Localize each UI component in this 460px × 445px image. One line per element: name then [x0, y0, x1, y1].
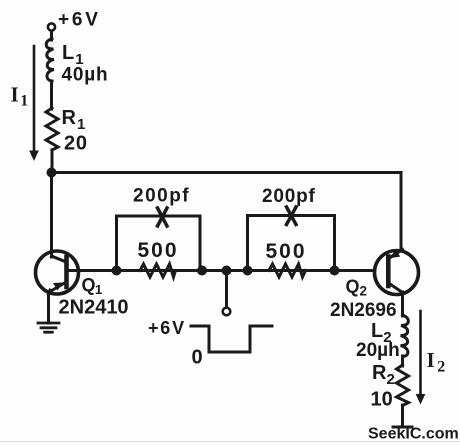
- node B junction dot: [112, 266, 122, 276]
- node C junction dot: [197, 266, 207, 276]
- svg-text:+6V: +6V: [148, 318, 186, 338]
- pulse input terminal: [223, 308, 231, 316]
- svg-text:0: 0: [192, 347, 203, 369]
- wire Q1 emitter to ground: [47, 292, 50, 323]
- svg-text:200pf: 200pf: [133, 186, 190, 207]
- svg-text:Q2: Q2: [346, 277, 368, 299]
- transistor Q2 2N2696: [375, 250, 419, 295]
- transistor Q1 2N2410: [36, 251, 79, 294]
- svg-text:500: 500: [138, 239, 179, 262]
- node E junction dot: [243, 266, 253, 276]
- capacitor C1 200pf: [158, 208, 168, 226]
- output end tick: [393, 426, 412, 429]
- resistor 500 (right): [269, 264, 306, 277]
- inductor L1 40uh: [46, 39, 54, 82]
- svg-text:R2: R2: [372, 362, 395, 388]
- svg-text:2N2696: 2N2696: [330, 300, 397, 321]
- svg-text:20µh: 20µh: [356, 340, 400, 361]
- resistor R2 10: [397, 365, 409, 406]
- wire L2 to R2: [401, 356, 404, 366]
- wire terminal to L1: [50, 31, 53, 40]
- node D junction dot (pulse stem): [222, 266, 232, 276]
- current arrow I2: [419, 311, 422, 396]
- svg-text:200pf: 200pf: [262, 186, 316, 207]
- ground: [38, 323, 59, 332]
- svg-text:40µh: 40µh: [62, 65, 109, 86]
- svg-text:500: 500: [266, 240, 307, 263]
- node A junction dot: [47, 168, 57, 178]
- svg-text:I1: I1: [11, 83, 29, 110]
- supply terminal +6V: [48, 23, 55, 30]
- svg-text:10: 10: [371, 389, 393, 411]
- svg-text:SeekIC.com: SeekIC.com: [368, 426, 459, 443]
- wire capacitor loop 1: [117, 216, 201, 271]
- wire R2 to output: [401, 405, 404, 427]
- wire stem to pulse terminal: [225, 271, 228, 308]
- resistor 500 (left): [140, 264, 176, 277]
- bottom border: [0, 441, 460, 443]
- svg-text:R1: R1: [62, 107, 86, 133]
- wire top rail: [52, 173, 402, 253]
- inductor L2 20uh: [401, 315, 409, 357]
- svg-text:20: 20: [64, 133, 88, 155]
- wire node A to Q1 collector: [50, 173, 53, 255]
- svg-text:Q1: Q1: [82, 275, 103, 297]
- svg-text:+6V: +6V: [58, 10, 101, 31]
- wire capacitor loop 2: [248, 216, 335, 271]
- pulse waveform: [191, 326, 272, 352]
- wire base rail Q1 to Q2: [67, 269, 387, 272]
- capacitor C2 200pf: [287, 207, 297, 225]
- current arrow I1: [33, 46, 36, 153]
- resistor R1 20: [46, 108, 58, 150]
- wire L1 to R1: [50, 81, 53, 109]
- wire R1 to node A: [51, 150, 54, 172]
- node F junction dot: [330, 266, 340, 276]
- wire Q2 emitter to L2: [401, 292, 404, 316]
- svg-text:I2: I2: [427, 348, 446, 376]
- svg-text:2N2410: 2N2410: [59, 297, 129, 319]
